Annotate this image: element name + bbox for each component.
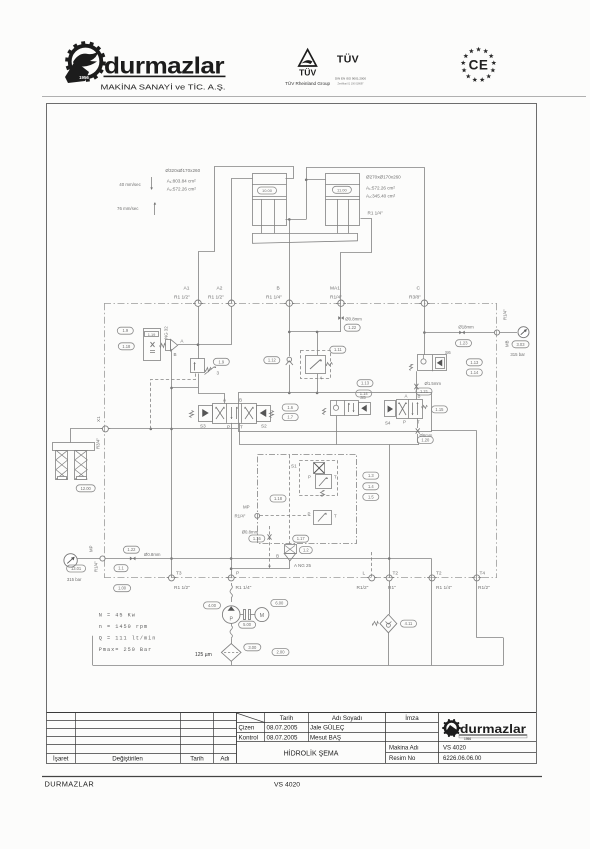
- svg-text:3: 3: [217, 371, 220, 376]
- svg-text:R1 1/2'': R1 1/2'': [174, 585, 190, 591]
- svg-text:X1: X1: [96, 416, 101, 422]
- svg-text:13.01: 13.01: [71, 566, 82, 571]
- svg-text:08.07.2005: 08.07.2005: [267, 725, 299, 732]
- svg-text:TÜV Rheinland Group: TÜV Rheinland Group: [285, 81, 331, 86]
- svg-text:Resim No: Resim No: [389, 756, 416, 762]
- svg-text:Ø320xØ170x260: Ø320xØ170x260: [165, 168, 200, 173]
- svg-text:Adı: Adı: [220, 756, 230, 763]
- svg-text:R1 1/4": R1 1/4": [266, 295, 282, 301]
- svg-text:Q = 111 lt/min: Q = 111 lt/min: [99, 636, 157, 642]
- svg-text:A₂:345.40 cm²: A₂:345.40 cm²: [366, 194, 396, 199]
- svg-text:Ø270xØ170x260: Ø270xØ170x260: [366, 175, 401, 180]
- svg-text:M: M: [260, 613, 265, 619]
- svg-text:1.18: 1.18: [122, 344, 131, 349]
- svg-text:S1: S1: [291, 464, 297, 469]
- svg-text:TÜV: TÜV: [337, 53, 359, 66]
- svg-text:MP: MP: [243, 505, 250, 510]
- svg-text:durmazlar: durmazlar: [104, 53, 224, 79]
- svg-text:P: P: [236, 571, 239, 577]
- svg-text:1.18: 1.18: [274, 496, 283, 501]
- svg-text:76 mm/sec: 76 mm/sec: [117, 206, 139, 211]
- svg-text:R1/4": R1/4": [330, 295, 342, 301]
- svg-text:T4: T4: [480, 571, 486, 577]
- svg-text:R1 1/4'': R1 1/4'': [436, 585, 452, 591]
- svg-text:T3: T3: [176, 571, 182, 577]
- svg-text:S3: S3: [200, 424, 206, 429]
- svg-text:T2: T2: [393, 571, 399, 577]
- svg-text:Adı Soyadı: Adı Soyadı: [332, 715, 363, 722]
- svg-text:İmza: İmza: [405, 715, 419, 722]
- svg-text:P: P: [308, 475, 311, 480]
- svg-text:T: T: [334, 514, 337, 519]
- svg-text:R1 1/2": R1 1/2": [208, 295, 224, 301]
- svg-text:R1 1/4'': R1 1/4'': [236, 585, 252, 591]
- svg-text:L: L: [363, 571, 366, 577]
- svg-text:3.03: 3.03: [517, 342, 526, 347]
- svg-text:P: P: [227, 425, 230, 430]
- svg-text:B: B: [276, 554, 279, 559]
- svg-text:R1/4": R1/4": [503, 309, 508, 320]
- svg-text:1.12: 1.12: [268, 358, 277, 363]
- svg-text:Tarih: Tarih: [190, 756, 204, 763]
- svg-text:İşaret: İşaret: [53, 756, 69, 763]
- svg-text:Değiştirilen: Değiştirilen: [112, 756, 143, 763]
- svg-text:2.00: 2.00: [277, 650, 286, 655]
- svg-text:1.1: 1.1: [118, 566, 124, 571]
- svg-text:5.00: 5.00: [243, 622, 252, 627]
- svg-text:DURMAZLAR: DURMAZLAR: [45, 780, 95, 789]
- svg-text:A: A: [405, 394, 408, 399]
- svg-text:1.9: 1.9: [122, 328, 128, 333]
- svg-text:VS 4020: VS 4020: [443, 746, 467, 752]
- svg-text:R1 1/4": R1 1/4": [368, 211, 384, 216]
- svg-text:Ø0.8mm: Ø0.8mm: [345, 317, 362, 322]
- svg-text:Pmax= 250 Bar: Pmax= 250 Bar: [99, 647, 152, 653]
- svg-text:1.23: 1.23: [460, 341, 469, 346]
- svg-text:315 bar: 315 bar: [67, 577, 82, 582]
- svg-text:4.00: 4.00: [208, 603, 217, 608]
- svg-text:12.00: 12.00: [81, 486, 92, 491]
- svg-text:R3/8": R3/8": [409, 295, 421, 301]
- svg-text:125 µm: 125 µm: [195, 652, 212, 658]
- svg-text:S4: S4: [385, 421, 391, 426]
- svg-text:6226.06.06.00: 6226.06.06.00: [443, 756, 482, 762]
- svg-text:B: B: [239, 398, 242, 403]
- svg-text:315 bar: 315 bar: [510, 352, 525, 357]
- svg-text:Kontrol: Kontrol: [239, 734, 259, 741]
- svg-text:A₁:572.26 cm²: A₁:572.26 cm²: [366, 186, 395, 191]
- svg-text:n = 1450 rpm: n = 1450 rpm: [99, 624, 148, 630]
- svg-text:DIN EN ISO 9001:2000: DIN EN ISO 9001:2000: [335, 77, 366, 81]
- svg-text:A NG 25: A NG 25: [294, 563, 312, 568]
- svg-text:S6: S6: [445, 350, 451, 355]
- svg-text:R1 1/2": R1 1/2": [174, 295, 190, 301]
- svg-text:Ø0.8mm: Ø0.8mm: [242, 529, 259, 534]
- svg-text:R1/4": R1/4": [235, 514, 246, 519]
- svg-text:HİDROLİK ŞEMA: HİDROLİK ŞEMA: [284, 749, 339, 758]
- svg-text:durmazlar: durmazlar: [460, 724, 527, 736]
- svg-text:11.00: 11.00: [337, 187, 347, 192]
- svg-text:MP: MP: [89, 545, 94, 552]
- svg-text:VS 4020: VS 4020: [274, 782, 300, 789]
- svg-text:1.14: 1.14: [470, 370, 479, 375]
- svg-text:Çizen: Çizen: [239, 725, 255, 732]
- svg-text:A₂:572.26 cm²: A₂:572.26 cm²: [167, 187, 197, 192]
- svg-text:Ø0.8mm: Ø0.8mm: [144, 552, 161, 557]
- svg-text:1.14: 1.14: [360, 391, 369, 396]
- svg-text:R1/4": R1/4": [94, 561, 99, 572]
- svg-text:A₁:803.84 cm²: A₁:803.84 cm²: [167, 179, 196, 184]
- svg-text:1.11: 1.11: [334, 347, 342, 352]
- svg-text:40 mm/sec: 40 mm/sec: [119, 182, 141, 187]
- svg-text:1.9: 1.9: [218, 359, 224, 364]
- svg-text:1.13: 1.13: [470, 360, 479, 365]
- svg-text:1.3: 1.3: [368, 473, 374, 478]
- svg-text:1.2: 1.2: [303, 548, 309, 553]
- svg-text:C: C: [417, 286, 421, 292]
- svg-text:1.00: 1.00: [118, 586, 127, 591]
- svg-text:A2: A2: [217, 286, 223, 292]
- svg-text:TÜV: TÜV: [299, 68, 316, 78]
- svg-text:T2: T2: [436, 571, 442, 577]
- svg-text:NG 32: NG 32: [164, 326, 169, 339]
- svg-text:Jale GÜLEÇ: Jale GÜLEÇ: [310, 725, 345, 732]
- svg-text:B: B: [277, 286, 280, 292]
- svg-text:R3/4": R3/4": [96, 438, 101, 449]
- svg-text:R1/2'': R1/2'': [478, 585, 490, 591]
- svg-text:1.21: 1.21: [420, 389, 429, 394]
- svg-text:1.6: 1.6: [287, 405, 293, 410]
- svg-text:MB: MB: [505, 340, 510, 347]
- svg-text:T: T: [334, 475, 337, 480]
- svg-text:1.13: 1.13: [361, 381, 370, 386]
- svg-text:A1: A1: [184, 286, 190, 292]
- svg-text:Makina Adı: Makina Adı: [389, 746, 419, 752]
- svg-text:1.16: 1.16: [253, 536, 262, 541]
- svg-text:B: B: [174, 352, 177, 357]
- svg-text:Tarih: Tarih: [280, 715, 294, 722]
- svg-text:1.7: 1.7: [287, 415, 293, 420]
- svg-text:1.17: 1.17: [297, 536, 306, 541]
- svg-text:R1/2'': R1/2'': [357, 585, 369, 591]
- svg-text:1956: 1956: [464, 737, 471, 741]
- svg-text:10.00: 10.00: [262, 188, 273, 193]
- svg-text:Ø18mm: Ø18mm: [458, 324, 474, 329]
- svg-text:6.00: 6.00: [275, 601, 284, 606]
- svg-text:1.22: 1.22: [127, 547, 136, 552]
- svg-text:1.19: 1.19: [148, 332, 156, 337]
- svg-text:1.5: 1.5: [368, 494, 374, 499]
- svg-text:1.15: 1.15: [435, 407, 444, 412]
- svg-text:Mesut BAŞ: Mesut BAŞ: [310, 734, 341, 741]
- svg-text:1.22: 1.22: [348, 325, 357, 330]
- svg-text:3.00: 3.00: [248, 645, 257, 650]
- svg-text:T: T: [240, 425, 243, 430]
- svg-text:1.20: 1.20: [421, 438, 430, 443]
- svg-text:P: P: [403, 420, 406, 425]
- svg-text:08.07.2005: 08.07.2005: [267, 734, 299, 741]
- svg-text:4.11: 4.11: [405, 621, 413, 626]
- svg-text:MA1: MA1: [330, 286, 340, 292]
- svg-text:B: B: [418, 394, 421, 399]
- svg-text:Ø1.5mm: Ø1.5mm: [425, 381, 442, 386]
- svg-text:N = 45 Kw: N = 45 Kw: [99, 613, 136, 619]
- svg-text:1.4: 1.4: [368, 484, 374, 489]
- svg-text:S2: S2: [261, 424, 267, 429]
- svg-text:1956: 1956: [79, 75, 89, 80]
- svg-text:P: P: [229, 617, 233, 623]
- svg-text:MAKİNA SANAYİ ve TİC. A.Ş.: MAKİNA SANAYİ ve TİC. A.Ş.: [101, 83, 226, 92]
- svg-text:CE: CE: [469, 58, 489, 73]
- svg-text:Zertifikat 01 100 018697: Zertifikat 01 100 018697: [338, 82, 364, 86]
